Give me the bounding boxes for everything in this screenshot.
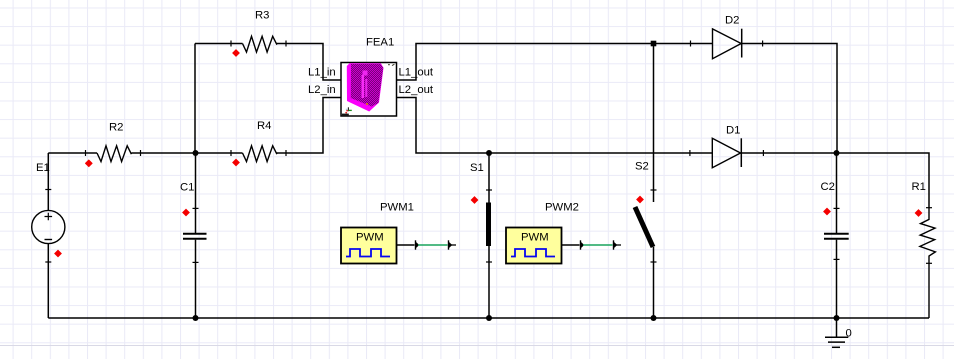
node junction bottom S1 [486,315,492,321]
FEA1 corner marks [342,64,395,116]
svg-text:L1_in: L1_in [308,67,336,79]
svg-text:D2: D2 [725,15,739,27]
FEA1 magnet image [347,63,384,111]
red node dot S2 [637,196,644,203]
red node dot S1 [471,197,478,204]
svg-text:C2: C2 [821,181,835,193]
svg-text:0: 0 [846,328,852,340]
diode D2 [691,15,763,59]
bottom rail wire [48,317,929,319]
wire R4 right up to L2_in [277,98,342,154]
svg-text:D1: D1 [726,125,740,137]
wire L1_out up to top rail [397,44,713,81]
pin label L1_in [308,67,336,79]
switch S2 [635,46,657,318]
PWM2 output wire with arrows to S2 [562,240,622,249]
resistor R2 [86,122,141,162]
wire E1 top to R2 [48,152,97,154]
pin label L1_out [399,67,434,79]
red node dot R1 [915,210,922,217]
svg-text:S1: S1 [470,162,484,174]
node junction bottom S2 [651,315,657,321]
svg-text:L2_in: L2_in [308,84,336,96]
resistor R4 [231,120,286,162]
capacitor C2 [821,153,849,318]
resistor R3 [231,10,286,53]
svg-text:R1: R1 [912,181,926,193]
red node dot R4 [233,159,240,166]
node junction C1 top [193,150,199,156]
red node dot E1 [55,250,62,257]
red node dot R2 [85,160,92,167]
wire D2 to right corner down [742,44,837,154]
svg-text:L2_out: L2_out [399,84,434,96]
wire D1 right to C2 node and R1 corner [741,153,929,208]
svg-text:R2: R2 [109,122,123,134]
node junction bottom C2/ground [834,315,840,321]
wire L2_out down to mid rail [397,98,713,154]
PWM block PWM1 [341,202,414,264]
wire R3 right to corner down to L1_in [277,44,342,81]
svg-text:FEA1: FEA1 [366,37,394,49]
wire left vertical node column [194,44,196,154]
svg-text:R3: R3 [255,10,269,22]
pin label L2_in [308,84,336,96]
capacitor C1 [180,153,207,318]
svg-text:PWM1: PWM1 [380,202,414,214]
diode D1 [690,125,764,168]
svg-text:C1: C1 [180,182,194,194]
svg-text:PWM2: PWM2 [545,202,579,214]
node junction S2 top (square) [651,41,657,47]
ground 0 [825,318,852,347]
svg-text:R4: R4 [257,120,271,132]
resistor R1 [912,181,936,318]
red node dot R3 [233,50,240,57]
node junction S1 top [486,150,492,156]
svg-text:PWM: PWM [356,232,384,244]
red node dot C2 [824,208,831,215]
PWM block PWM2 [506,202,579,264]
wire top-left horizontal from node to R3 [195,43,243,45]
node junction D1/C2 [834,150,840,156]
svg-text:E1: E1 [36,162,50,174]
pin label L2_out [399,84,434,96]
voltage source E1 [32,153,65,318]
node junction bottom C1 [193,315,199,321]
svg-text:PWM: PWM [521,232,549,244]
switch S1 [470,153,492,318]
red node dot C1 [183,209,190,216]
PWM1 output wire with arrows to S1 [397,240,457,249]
wire R2 to node [132,152,243,154]
FEA1 block [341,37,397,117]
svg-text:S2: S2 [635,161,649,173]
